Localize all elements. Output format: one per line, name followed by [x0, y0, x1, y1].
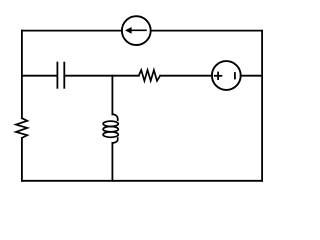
wire top-right segment [151, 30, 262, 32]
wire middle vertical upper [111, 76, 113, 115]
wire left side lower [21, 138, 23, 181]
wire right side [261, 31, 263, 181]
resistor middle branch [139, 70, 161, 81]
wire resistor to voltage source [160, 75, 212, 77]
wire capacitor to resistor [65, 75, 139, 77]
inductor middle branch [103, 114, 118, 143]
capacitor [57, 63, 64, 88]
resistor left branch [16, 118, 27, 138]
wire middle-left to capacitor [22, 75, 57, 77]
wire bottom [22, 180, 262, 182]
wire voltage source to right [241, 75, 262, 77]
wire top-left segment [22, 30, 122, 32]
current source I1 [122, 16, 151, 45]
wire middle vertical lower [111, 143, 113, 181]
voltage source V1 [212, 61, 241, 90]
wire left side upper [21, 31, 23, 119]
